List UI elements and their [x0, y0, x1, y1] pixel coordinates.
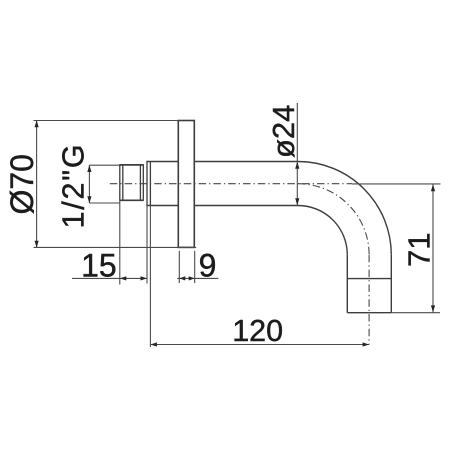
dim Ø70 extension bottom: [34, 246, 197, 248]
centerline horizontal (dash-dot): [110, 183, 352, 185]
dim 120 line: [150, 344, 369, 346]
dim 71 extension top (centerline ext): [352, 183, 441, 185]
end cap joint line: [347, 278, 391, 280]
arrow 120 left: [150, 342, 157, 346]
dim 1/2G extension top: [89, 164, 119, 166]
dim 120 extension left: [149, 206, 151, 348]
arrow 1/2G bottom: [87, 196, 91, 203]
dim Ø70 line: [36, 121, 38, 248]
svg-text:1/2"G: 1/2"G: [57, 143, 91, 229]
vertical tube right edge: [390, 255, 392, 313]
svg-text:71: 71: [402, 233, 437, 267]
centerline vertical (dash-dot): [368, 255, 370, 345]
svg-text:15: 15: [81, 247, 117, 283]
arrow 15 right: [141, 276, 148, 280]
bend inner arc: [298, 206, 347, 255]
arrow 120 right: [363, 342, 370, 346]
dim 71 line: [432, 184, 434, 313]
dim 15 extension left: [119, 200, 121, 284]
dim ø24 line: [296, 103, 298, 206]
arrow ø24 top: [295, 162, 299, 169]
arrow Ø70 top: [35, 120, 39, 127]
dim Ø70 extension top: [34, 120, 179, 122]
svg-text:120: 120: [232, 314, 283, 348]
arrow Ø70 bottom: [35, 241, 39, 248]
dim 9 extension right: [194, 251, 196, 283]
flange plate: [178, 121, 194, 248]
arrow ø24 bottom: [295, 198, 299, 205]
arrow 9 right: [189, 276, 195, 280]
bend outer arc: [298, 162, 391, 255]
thread nipple 1/2"G body: [119, 165, 144, 200]
arrow 15 left: [120, 276, 127, 280]
svg-text:ø24: ø24: [266, 105, 301, 158]
horizontal tube bottom edge: [194, 205, 298, 207]
horizontal tube top edge: [194, 161, 298, 163]
dim 9 line: [177, 277, 218, 279]
dim 1/2G extension bottom: [89, 202, 119, 204]
dim 15 line: [72, 277, 147, 279]
arrow 9 left: [179, 276, 185, 280]
dim 15 extension right / shoulder drop: [146, 206, 148, 284]
arrow 71 top: [431, 184, 435, 191]
dim 1/2G line: [88, 165, 90, 203]
vertical tube left edge: [346, 255, 348, 313]
svg-text:9: 9: [199, 248, 217, 284]
shoulder cylinder: [146, 162, 178, 206]
dim 9 extension left: [178, 251, 180, 283]
tube end bottom edge: [347, 312, 391, 314]
dim 71 extension bottom: [391, 312, 440, 314]
centerline bend arc (dash-dot): [298, 184, 369, 255]
arrow 1/2G top: [87, 165, 91, 172]
svg-text:Ø70: Ø70: [4, 154, 40, 214]
arrow 71 bottom: [431, 305, 435, 312]
